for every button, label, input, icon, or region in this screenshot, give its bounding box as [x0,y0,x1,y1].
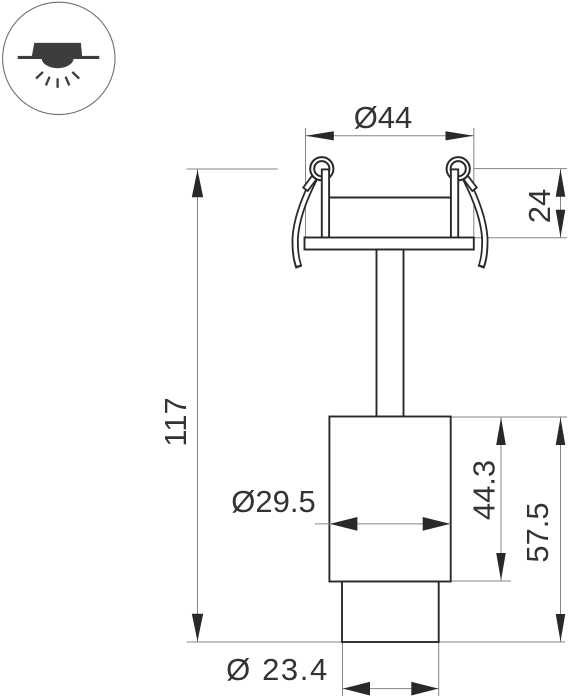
svg-text:Ø29.5: Ø29.5 [231,484,315,519]
can inner shelf [329,197,451,199]
arrow 24 top [556,169,566,197]
ext line dia23.4 right [438,643,440,696]
svg-text:57.5: 57.5 [520,502,555,562]
ext line body top right [451,416,567,418]
ext line bottom long [187,641,565,643]
arrow 57.5 top [556,418,566,446]
dim line dia44 [306,135,474,137]
svg-text:24: 24 [522,189,557,223]
ext line 117 top [187,168,278,170]
arrow dia23.4 left [343,682,370,696]
dim line 57.5 [560,417,562,642]
ext line 44.3 bottom [451,580,511,582]
spring clip left leg [295,179,314,268]
icon ceiling bar [18,56,100,59]
ext line dia44 left [305,128,307,240]
dim line dia29.5 [315,523,450,525]
ext line dia23.4 left [342,643,344,696]
arrow dia23.4 right [411,682,438,696]
svg-text:Ø 23.4: Ø 23.4 [226,652,329,687]
thin dimension/extension lines [187,128,567,696]
svg-text:44.3: 44.3 [467,460,502,520]
dim line 44.3 [500,417,502,581]
icon rays [36,72,79,88]
icon housing [32,43,82,56]
arrow 117 bottom [192,614,203,642]
spring clip left hook [303,176,316,191]
arrow 117 top [192,170,203,198]
arrow 24 bottom [556,210,566,238]
svg-text:Ø44: Ø44 [354,100,413,135]
body cylinder [329,417,450,582]
arrow dia29.5 right [423,517,451,531]
arrow dia44 right [446,131,474,140]
arrow dia44 left [306,131,334,140]
stem [377,250,404,417]
dimension texts [158,100,557,687]
can wall / post left [322,169,329,237]
icon light dome [42,59,74,68]
bottom section [342,582,439,643]
spring ring right [447,157,470,180]
icon circle [3,2,115,114]
arrow dia29.5 left [330,517,358,531]
spring clip right leg [466,179,485,268]
dim line 117 [197,169,199,642]
icon: recessed downlight symbol [3,2,115,114]
ext line dia44 right [473,128,475,248]
ext line 24 top [474,168,567,170]
dim line dia23.4 [343,688,439,690]
spring clip right hook [464,176,477,191]
arrow 57.5 bottom [556,614,566,642]
spring ring left [310,157,333,180]
arrows [192,131,566,695]
can wall / post right [451,169,458,237]
ext line 24 bottom [474,237,567,239]
arrow 44.3 bottom [496,553,506,581]
arrow 44.3 top [496,418,506,446]
dim line 24 [560,169,562,238]
svg-text:117: 117 [158,397,193,446]
trim flange [305,238,474,250]
